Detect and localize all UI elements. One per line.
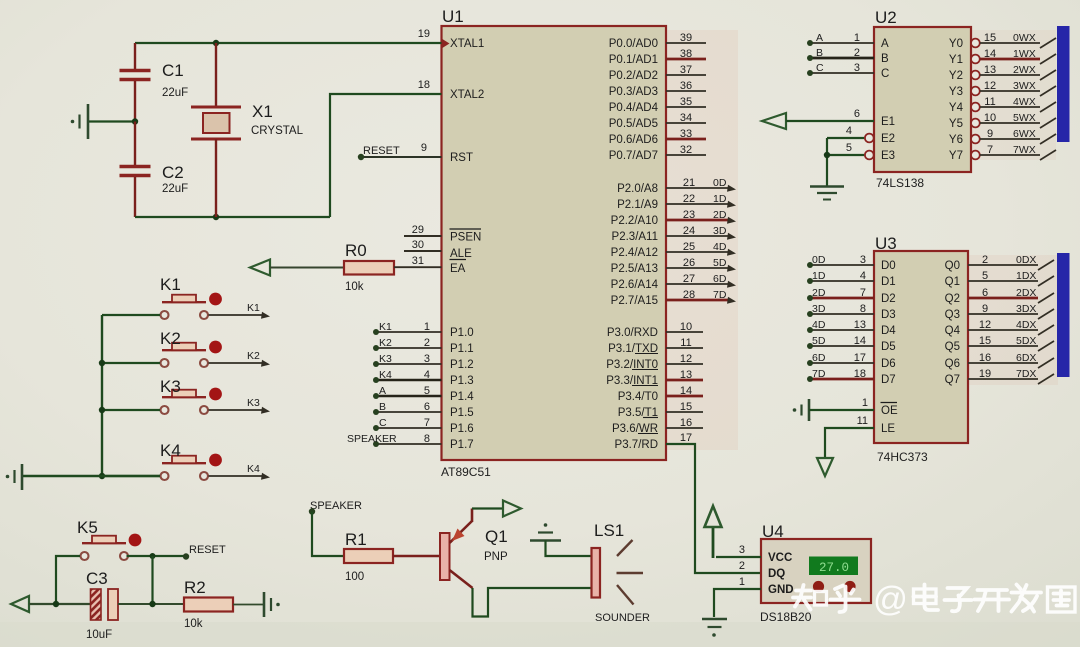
node dot 3D (807, 311, 813, 317)
node dot U2 C (807, 70, 813, 76)
resistor R2 (184, 598, 233, 612)
svg-text:74LS138: 74LS138 (876, 176, 924, 190)
wire P1.4 net A (376, 395, 442, 398)
node dot U2 A (807, 40, 813, 46)
svg-text:Y0: Y0 (949, 38, 963, 50)
node dot 1D (807, 278, 813, 284)
U4 up button (813, 581, 824, 592)
svg-text:D0: D0 (881, 260, 896, 272)
svg-text:D3: D3 (881, 309, 896, 321)
wire C3 top branch (151, 556, 153, 604)
svg-text:7: 7 (424, 417, 430, 429)
bubble Y4 (971, 103, 980, 112)
ground (buttons) (6, 464, 22, 490)
svg-text:P2.5/A13: P2.5/A13 (611, 263, 658, 275)
node dot P1.6 (373, 425, 379, 431)
wire U3 output Q5 net 5DX (968, 345, 1038, 347)
svg-text:D5: D5 (881, 341, 896, 353)
sounder LS1 (592, 540, 644, 605)
pin stub P3.3 (13) (666, 379, 703, 382)
svg-text:2: 2 (424, 337, 430, 349)
svg-text:7WX: 7WX (1013, 144, 1036, 156)
svg-text:7D: 7D (713, 289, 727, 301)
svg-text:K2: K2 (247, 350, 260, 362)
svg-text:6: 6 (982, 287, 988, 299)
svg-text:P2.2/A10: P2.2/A10 (611, 215, 658, 227)
svg-text:R2: R2 (184, 578, 206, 597)
svg-text:3D: 3D (812, 303, 826, 315)
node dot P1.5 (373, 409, 379, 415)
bubble Y3 (971, 87, 980, 96)
node dot U2 B (807, 55, 813, 61)
resistor R1 (344, 549, 393, 563)
svg-text:6DX: 6DX (1016, 352, 1036, 364)
wire OE (809, 409, 874, 411)
svg-text:74HC373: 74HC373 (877, 450, 928, 464)
svg-text:Y3: Y3 (949, 86, 963, 98)
svg-text:P0.2/AD2: P0.2/AD2 (609, 70, 658, 82)
svg-text:R0: R0 (345, 241, 367, 260)
svg-text:K5: K5 (77, 518, 98, 537)
bubble Y0 (971, 39, 980, 48)
wire U3 input 0D (810, 264, 874, 266)
svg-text:2D: 2D (812, 287, 826, 299)
svg-text:RESET: RESET (189, 544, 226, 556)
svg-text:17: 17 (680, 432, 692, 444)
svg-text:9: 9 (982, 303, 988, 315)
svg-text:12: 12 (979, 319, 991, 331)
svg-text:19: 19 (979, 368, 991, 380)
svg-text:Q7: Q7 (945, 374, 960, 386)
svg-text:10: 10 (680, 321, 692, 333)
svg-text:9: 9 (987, 128, 993, 140)
svg-text:Y6: Y6 (949, 134, 963, 146)
svg-text:XTAL2: XTAL2 (450, 89, 484, 101)
wire arrow to C3 (29, 603, 91, 605)
wire K3 left (102, 409, 160, 411)
wire P2.7 net 7D (666, 299, 728, 302)
svg-text:8: 8 (860, 303, 866, 315)
svg-text:17: 17 (854, 352, 866, 364)
bus entry 7DX (1038, 374, 1054, 384)
wire R2 to ground (233, 604, 264, 606)
ground flag (U3 OE) (793, 399, 809, 421)
svg-text:A: A (816, 32, 823, 44)
pin stub P3.1 (11) (666, 347, 703, 349)
svg-text:C: C (816, 62, 824, 74)
wire arrow to R0 (270, 267, 344, 269)
port arrow EA net (250, 260, 270, 276)
svg-text:29: 29 (412, 224, 424, 236)
net arrow K4 (261, 473, 270, 480)
svg-text:SPEAKER: SPEAKER (310, 500, 362, 512)
ground (U2) (810, 187, 844, 200)
svg-text:1: 1 (739, 576, 745, 588)
wire E3 (827, 154, 864, 156)
wire P2.1 net 1D (666, 203, 728, 205)
svg-text:B: B (881, 53, 889, 65)
microcontroller U1 body (AT89C51) (442, 26, 667, 460)
wire U3 output Q6 net 6DX (968, 362, 1038, 364)
svg-text:39: 39 (680, 32, 692, 44)
junction node K3 row (99, 407, 105, 413)
wire P2.6 net 6D (666, 283, 728, 285)
svg-text:37: 37 (680, 64, 692, 76)
svg-text:33: 33 (680, 128, 692, 140)
wire U2 input B (810, 57, 874, 60)
wire P1.1 net K2 (376, 347, 442, 349)
svg-text:5DX: 5DX (1016, 335, 1036, 347)
push button K3 (161, 388, 222, 414)
bus bar (U3 outputs) (1057, 253, 1070, 377)
U1 XTAL1 pin clock arrow (442, 39, 450, 49)
wire P2.3 net 3D (666, 235, 728, 237)
wire E1 (786, 120, 874, 122)
svg-text:2: 2 (982, 254, 988, 266)
U2 pin names (881, 38, 964, 162)
wire U3 output Q4 net 4DX (968, 329, 1038, 331)
wire U3 input 1D (810, 280, 874, 282)
svg-text:27.0: 27.0 (819, 561, 849, 575)
svg-text:11: 11 (984, 96, 995, 108)
svg-text:P1.0: P1.0 (450, 327, 474, 339)
svg-text:Q2: Q2 (945, 293, 960, 305)
ground (U4) (702, 619, 727, 637)
junction node left rail (53, 601, 59, 607)
net arrow 6D (727, 281, 736, 288)
wire P2.5 net 5D (666, 267, 728, 269)
node dot P1.3 (373, 377, 379, 383)
svg-text:Y7: Y7 (949, 150, 963, 162)
wire U2 input A (810, 42, 874, 44)
svg-text:SPEAKER: SPEAKER (347, 433, 397, 445)
svg-text:B: B (816, 47, 823, 59)
svg-text:14: 14 (854, 335, 866, 347)
pin stub P3.5 (15) (666, 411, 703, 413)
svg-text:Q5: Q5 (945, 341, 960, 353)
bubble Y1 (971, 55, 980, 64)
svg-text:3WX: 3WX (1013, 80, 1036, 92)
U4 down button (844, 581, 855, 592)
svg-text:EA: EA (450, 263, 466, 275)
wire VCC pin 3 (716, 556, 761, 558)
bus bar (U2 outputs) (1057, 26, 1070, 142)
bus entry 2DX (1038, 293, 1054, 303)
wire P2.4 net 4D (666, 251, 728, 253)
net arrow K1 (261, 312, 270, 319)
bus entry 0WX (1040, 38, 1056, 48)
wire U3 output Q3 net 3DX (968, 313, 1038, 315)
svg-text:5: 5 (846, 142, 852, 154)
pin halo right of U3 (968, 255, 1058, 385)
svg-text:100: 100 (345, 571, 364, 583)
svg-text:24: 24 (683, 225, 695, 237)
svg-text:22uF: 22uF (162, 87, 188, 99)
push button K2 (161, 341, 222, 367)
svg-text:C2: C2 (162, 163, 184, 182)
wire Y1 net 1WX (980, 58, 1040, 61)
svg-text:P0.5/AD5: P0.5/AD5 (609, 118, 658, 130)
wire Y3 net 3WX (980, 90, 1040, 92)
wire LE to arrow (825, 428, 874, 458)
bus entry 6DX (1038, 358, 1054, 368)
svg-text:35: 35 (680, 96, 692, 108)
svg-text:P2.3/A11: P2.3/A11 (612, 231, 658, 243)
svg-text:P2.4/A12: P2.4/A12 (611, 247, 658, 259)
svg-text:E3: E3 (881, 150, 895, 162)
svg-text:8: 8 (424, 433, 430, 445)
wire button common bus (101, 315, 103, 476)
svg-text:1: 1 (862, 397, 868, 409)
svg-text:P2.6/A14: P2.6/A14 (611, 279, 659, 291)
pin halo right of U1 (666, 30, 738, 450)
svg-text:R1: R1 (345, 530, 367, 549)
svg-text:LE: LE (881, 423, 895, 435)
svg-text:11: 11 (857, 415, 868, 427)
svg-text:28: 28 (683, 289, 695, 301)
svg-text:15: 15 (984, 32, 996, 44)
svg-text:LS1: LS1 (594, 521, 624, 540)
svg-text:Q4: Q4 (945, 325, 961, 337)
wire K4 to net label (209, 475, 263, 477)
svg-text:B: B (379, 401, 386, 413)
svg-text:K3: K3 (160, 377, 181, 396)
bus entry 2WX (1040, 70, 1056, 80)
decoder U2 body (74LS138) (874, 27, 971, 172)
svg-text:36: 36 (680, 80, 692, 92)
bus entry 6WX (1040, 134, 1056, 144)
svg-text:22uF: 22uF (162, 183, 188, 195)
svg-text:4: 4 (860, 270, 866, 282)
svg-text:P0.6/AD6: P0.6/AD6 (609, 134, 658, 146)
wire P1.7 net SPEAKER (376, 443, 442, 445)
U1 right pin names (606, 38, 658, 451)
power arrow VCC (705, 506, 722, 558)
wire U3 output Q0 net 0DX (968, 264, 1038, 266)
svg-text:9: 9 (421, 142, 427, 154)
pin stub P0.7 (32) (666, 154, 706, 156)
wire U3 input 7D (810, 378, 874, 381)
wire Q1 collector to LS1 (473, 588, 592, 617)
wire oscillator bottom rail (135, 216, 330, 218)
svg-text:10: 10 (984, 112, 996, 124)
node dot 2D (807, 295, 813, 301)
wire K5 right to RESET (127, 555, 187, 557)
junction node K5-C3 (150, 553, 156, 559)
net arrow 2D (727, 217, 736, 224)
svg-text:Y2: Y2 (949, 70, 963, 82)
svg-text:X1: X1 (252, 102, 273, 121)
svg-text:10k: 10k (184, 618, 203, 630)
svg-text:K1: K1 (160, 275, 181, 294)
svg-text:12: 12 (984, 80, 996, 92)
pin stub PSEN 29 (404, 235, 442, 237)
svg-text:4: 4 (424, 369, 430, 381)
svg-text:4D: 4D (713, 241, 727, 253)
svg-text:SOUNDER: SOUNDER (595, 612, 650, 624)
svg-text:3DX: 3DX (1016, 303, 1036, 315)
svg-text:ALE: ALE (450, 248, 472, 260)
svg-text:Q6: Q6 (945, 358, 960, 370)
svg-text:Y5: Y5 (949, 118, 963, 130)
svg-text:1DX: 1DX (1016, 270, 1036, 282)
svg-text:3D: 3D (713, 225, 727, 237)
svg-text:XTAL1: XTAL1 (450, 38, 484, 50)
svg-text:6WX: 6WX (1013, 128, 1036, 140)
wire GND pin 1 (714, 589, 761, 617)
svg-text:13: 13 (680, 369, 692, 381)
net arrow 5D (727, 265, 736, 272)
svg-text:18: 18 (854, 368, 866, 380)
svg-text:2DX: 2DX (1016, 287, 1036, 299)
svg-text:U1: U1 (442, 7, 464, 26)
wire C3 to R2 (118, 603, 184, 605)
node dot P1.1 (373, 345, 379, 351)
svg-text:K4: K4 (379, 369, 392, 381)
svg-text:19: 19 (418, 28, 430, 40)
svg-text:P1.2: P1.2 (450, 359, 474, 371)
svg-text:4D: 4D (812, 319, 826, 331)
wire U3 input 4D (810, 329, 874, 331)
svg-text:1D: 1D (812, 270, 826, 282)
svg-text:6D: 6D (713, 273, 727, 285)
bus entry 3DX (1038, 309, 1054, 319)
pin stub P3.6 (16) (666, 427, 703, 429)
wire E2 (827, 137, 864, 139)
svg-text:C1: C1 (162, 61, 184, 80)
pin stub P0.1 (38) (666, 58, 706, 61)
wire P1.5 net B (376, 411, 442, 413)
svg-text:26: 26 (683, 257, 695, 269)
port arrow emitter (503, 501, 521, 517)
svg-text:Q1: Q1 (485, 527, 508, 546)
svg-text:0WX: 0WX (1013, 32, 1036, 44)
svg-text:10uF: 10uF (86, 629, 112, 641)
bus entry 0DX (1038, 260, 1054, 270)
svg-text:6: 6 (854, 108, 860, 120)
wire XTAL1 top rail (135, 42, 442, 44)
svg-text:30: 30 (412, 239, 424, 251)
svg-text:P1.1: P1.1 (450, 343, 474, 355)
svg-text:PNP: PNP (484, 551, 508, 563)
svg-text:13: 13 (854, 319, 866, 331)
pin stub P0.5 (34) (666, 122, 706, 124)
svg-text:P1.4: P1.4 (450, 391, 474, 403)
svg-text:P1.3: P1.3 (450, 375, 474, 387)
resistor R0 (344, 261, 394, 275)
svg-text:K4: K4 (160, 441, 181, 460)
svg-text:7: 7 (860, 287, 866, 299)
svg-text:Q3: Q3 (945, 309, 960, 321)
svg-text:16: 16 (979, 352, 991, 364)
pin stub P3.4 (14) (666, 395, 703, 398)
node dot 0D (807, 262, 813, 268)
ground (LS1 top, inverted) (530, 523, 561, 540)
svg-text:6D: 6D (812, 352, 826, 364)
svg-text:P0.1/AD1: P0.1/AD1 (609, 54, 658, 66)
svg-text:P2.0/A8: P2.0/A8 (617, 183, 658, 195)
svg-text:D7: D7 (881, 374, 896, 386)
junction node K2 row (99, 360, 105, 366)
svg-text:25: 25 (683, 241, 695, 253)
svg-text:Y4: Y4 (949, 102, 964, 114)
wire P1.0 net K1 (376, 331, 442, 333)
node dot 6D (807, 360, 813, 366)
ground (reset circuit) (264, 592, 280, 617)
U4 pin names (768, 552, 794, 596)
svg-text:27: 27 (683, 273, 695, 285)
bubble Y2 (971, 71, 980, 80)
svg-text:32: 32 (680, 144, 692, 156)
svg-text:11: 11 (680, 337, 691, 349)
svg-text:4DX: 4DX (1016, 319, 1036, 331)
wire P2.2 net 2D (666, 219, 728, 222)
junction node crystal bottom (213, 214, 219, 220)
push button K1 (161, 293, 222, 319)
pin stub P0.3 (36) (666, 90, 706, 92)
svg-text:0DX: 0DX (1016, 254, 1036, 266)
svg-text:2WX: 2WX (1013, 64, 1036, 76)
wire Y2 net 2WX (980, 74, 1040, 76)
svg-text:6: 6 (424, 401, 430, 413)
node dot RESET net (183, 553, 189, 559)
svg-text:1D: 1D (713, 193, 727, 205)
capacitor C2 (120, 122, 151, 218)
bus entry 1DX (1038, 276, 1054, 286)
svg-text:D6: D6 (881, 358, 896, 370)
svg-text:4WX: 4WX (1013, 96, 1036, 108)
svg-text:7D: 7D (812, 368, 826, 380)
wire U3 input 2D (810, 297, 874, 300)
svg-text:7DX: 7DX (1016, 368, 1036, 380)
svg-text:P2.7/A15: P2.7/A15 (611, 295, 658, 307)
svg-text:P3.7/RD: P3.7/RD (615, 439, 658, 451)
wire Y5 net 5WX (980, 122, 1040, 124)
net arrow K2 (261, 360, 270, 367)
ground (oscillator) (71, 104, 88, 139)
U3 pin names (881, 260, 961, 435)
push button K4 (161, 454, 222, 480)
wire P1.3 net K4 (376, 379, 442, 382)
svg-text:0D: 0D (812, 254, 826, 266)
wire K3 to net label (209, 409, 263, 411)
bubble Y5 (971, 119, 980, 128)
svg-text:C: C (881, 68, 889, 80)
svg-text:RESET: RESET (363, 145, 400, 157)
svg-text:AT89C51: AT89C51 (441, 465, 491, 479)
svg-text:P2.1/A9: P2.1/A9 (617, 199, 658, 211)
pin stub P3.0 (10) (666, 331, 703, 333)
wire U2 input C (810, 72, 874, 74)
latch U3 body (74HC373) (874, 251, 968, 443)
wire P2.0 net 0D (666, 187, 728, 189)
svg-text:P3.0/RXD: P3.0/RXD (607, 327, 658, 339)
svg-text:U4: U4 (762, 522, 784, 541)
svg-text:E1: E1 (881, 116, 895, 128)
wire LS1 top pin (546, 541, 592, 557)
svg-text:K4: K4 (247, 463, 260, 475)
bus entry 4WX (1040, 102, 1056, 112)
wire Q1 emitter to port (472, 507, 503, 509)
svg-text:U3: U3 (875, 234, 897, 253)
wire U3 input 6D (810, 362, 874, 364)
svg-text:5: 5 (424, 385, 430, 397)
svg-text:23: 23 (683, 209, 695, 221)
wire P1.2 net K3 (376, 363, 442, 365)
svg-text:1: 1 (424, 321, 430, 333)
pin stub P0.0 (39) (666, 42, 706, 44)
node dot P1.4 (373, 393, 379, 399)
